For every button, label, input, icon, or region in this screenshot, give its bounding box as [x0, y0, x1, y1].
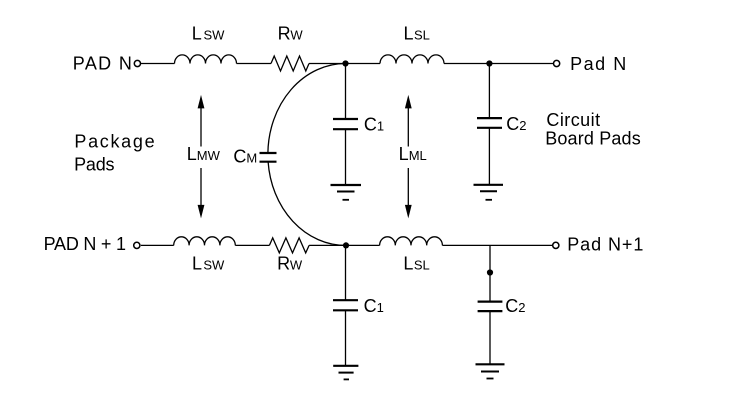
- svg-text:LMW: LMW: [187, 144, 221, 164]
- wire CM lower arc: [268, 162, 345, 246]
- wire C1 bottom lead: [345, 245, 347, 300]
- ground bottom-C2: [476, 364, 505, 378]
- wire: [141, 244, 174, 246]
- wire: [442, 244, 553, 246]
- wire: [235, 244, 269, 246]
- inductor LSL top: [380, 55, 444, 64]
- svg-text:C1: C1: [364, 296, 384, 316]
- ground top-C1: [331, 185, 362, 200]
- wire: [488, 128, 490, 185]
- svg-text:C1: C1: [364, 115, 384, 135]
- capacitor C1 bottom: [333, 300, 358, 310]
- wire: [345, 310, 347, 366]
- terminal Pad N+1: [553, 242, 559, 248]
- svg-text:C2: C2: [505, 296, 525, 316]
- node junction bottom-A: [343, 242, 349, 248]
- svg-text:C2: C2: [506, 114, 526, 134]
- resistor RW bottom: [269, 238, 309, 253]
- svg-text:PAD N: PAD N: [73, 54, 132, 74]
- terminal Pad N: [554, 60, 560, 66]
- wire: [489, 311, 491, 364]
- svg-text:CM: CM: [233, 147, 257, 167]
- node junction top-A: [342, 60, 348, 66]
- wire: [237, 63, 272, 65]
- svg-text:LML: LML: [399, 144, 427, 164]
- inductor LML mutual arrow: [405, 95, 412, 218]
- svg-text:RW: RW: [278, 24, 304, 44]
- capacitor C2 top: [477, 118, 502, 128]
- wire C2 top lead: [488, 64, 490, 119]
- wire: [345, 129, 347, 185]
- svg-text:Pad N: Pad N: [570, 54, 626, 74]
- node junction top-B: [486, 60, 492, 66]
- wire: [141, 63, 175, 65]
- inductor LMW mutual arrow: [198, 95, 205, 218]
- ground top-C2: [474, 185, 504, 200]
- wire C2 bottom lead: [489, 245, 491, 301]
- svg-text:PAD N + 1: PAD N + 1: [44, 234, 126, 254]
- capacitor C2 bottom: [478, 302, 503, 312]
- svg-text:PackagePads: PackagePads: [74, 132, 155, 175]
- wire C1 top lead: [345, 64, 347, 120]
- wire CM upper arc: [268, 64, 346, 154]
- svg-text:LSW: LSW: [192, 24, 225, 44]
- ground bottom-C1: [333, 366, 358, 380]
- svg-text:LSW: LSW: [192, 254, 225, 274]
- inductor LSL bottom: [380, 237, 443, 246]
- svg-text:RW: RW: [277, 254, 303, 274]
- wire: [309, 63, 380, 65]
- svg-text:LSL: LSL: [403, 254, 429, 274]
- wire: [309, 244, 380, 246]
- inductor LSW bottom: [174, 237, 236, 246]
- capacitor CM: [260, 153, 277, 162]
- terminal PAD N: [134, 60, 140, 66]
- svg-text:CircuitBoard Pads: CircuitBoard Pads: [545, 110, 641, 148]
- terminal PAD N + 1: [134, 242, 140, 248]
- node junction C2 bottom: [487, 269, 493, 275]
- svg-text:Pad N+1: Pad N+1: [567, 235, 643, 255]
- capacitor C1 top: [333, 119, 358, 129]
- svg-text:LSL: LSL: [404, 24, 430, 44]
- wire: [444, 63, 554, 65]
- resistor RW top: [271, 56, 309, 71]
- inductor LSW top: [175, 55, 237, 64]
